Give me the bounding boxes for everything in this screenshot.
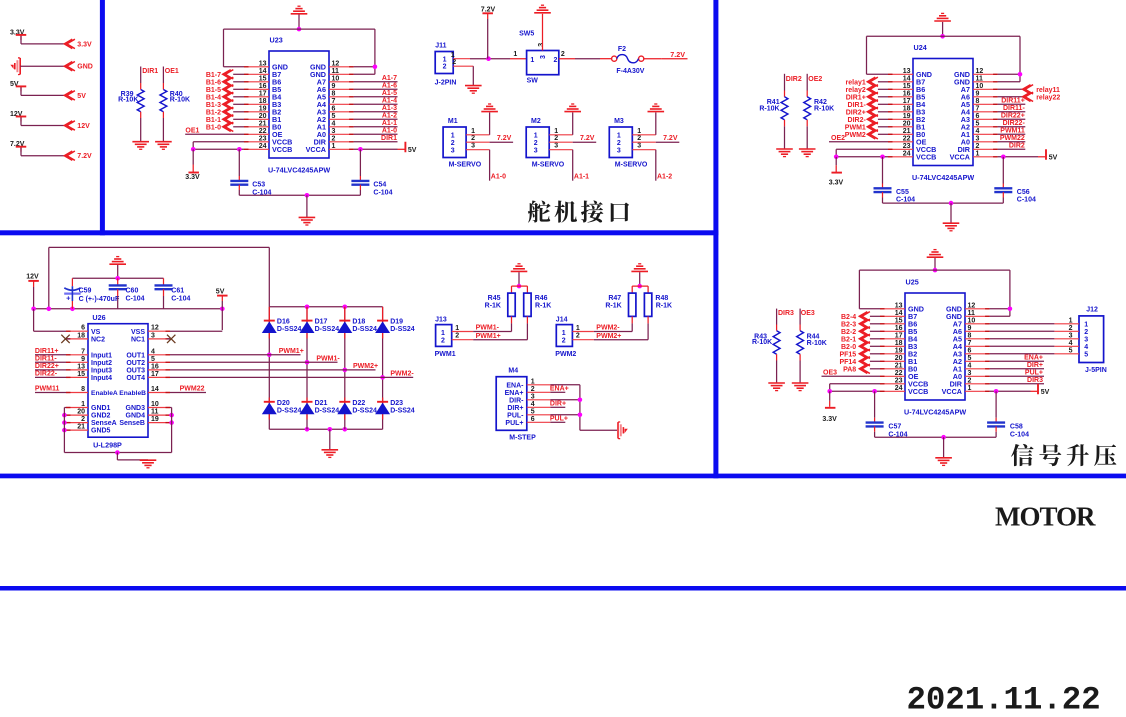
svg-text:15: 15 (895, 317, 903, 324)
svg-text:24: 24 (895, 385, 903, 392)
svg-text:8: 8 (976, 98, 980, 105)
svg-text:M-STEP: M-STEP (509, 435, 536, 442)
svg-text:3: 3 (976, 135, 980, 142)
svg-text:1: 1 (617, 132, 621, 139)
svg-text:5: 5 (1069, 347, 1073, 354)
svg-text:1: 1 (637, 128, 641, 135)
svg-text:16: 16 (903, 90, 911, 97)
svg-text:R46: R46 (535, 295, 548, 302)
svg-text:Input3: Input3 (91, 368, 112, 375)
svg-text:B2-2: B2-2 (841, 329, 856, 336)
svg-text:9: 9 (968, 325, 972, 332)
svg-text:1: 1 (443, 56, 447, 63)
svg-text:OE1: OE1 (185, 128, 199, 135)
svg-text:D-SS24: D-SS24 (315, 408, 340, 415)
svg-text:VS: VS (91, 329, 101, 336)
svg-text:C54: C54 (373, 182, 386, 189)
svg-text:C61: C61 (171, 288, 184, 295)
svg-text:22: 22 (259, 128, 267, 135)
svg-text:J-2PIN: J-2PIN (435, 79, 457, 86)
svg-text:DIR1: DIR1 (381, 135, 397, 142)
svg-text:DIR1+: DIR1+ (846, 94, 866, 101)
svg-text:11: 11 (332, 68, 340, 75)
svg-text:2: 2 (1069, 325, 1073, 332)
svg-text:6: 6 (968, 347, 972, 354)
svg-text:2: 2 (81, 416, 85, 423)
svg-text:PF14: PF14 (839, 359, 856, 366)
svg-text:5: 5 (531, 408, 535, 415)
svg-text:B1-4: B1-4 (206, 94, 221, 101)
svg-text:1: 1 (332, 143, 336, 150)
svg-text:12: 12 (968, 302, 976, 309)
svg-text:1: 1 (530, 57, 534, 64)
svg-text:DIR2+: DIR2+ (846, 109, 866, 116)
svg-text:OUT2: OUT2 (126, 360, 145, 367)
svg-text:DIR1-: DIR1- (848, 102, 867, 109)
svg-text:GND: GND (77, 64, 93, 71)
svg-text:D22: D22 (352, 400, 365, 407)
svg-text:16: 16 (895, 325, 903, 332)
svg-text:7: 7 (968, 340, 972, 347)
svg-text:R-1K: R-1K (656, 302, 672, 309)
svg-text:U-74LVC4245APW: U-74LVC4245APW (268, 166, 330, 175)
svg-text:PWM11: PWM11 (35, 386, 60, 393)
svg-text:F-4A30V: F-4A30V (616, 68, 644, 75)
svg-text:4: 4 (976, 128, 980, 135)
svg-text:3.3V: 3.3V (822, 416, 837, 423)
svg-text:R47: R47 (608, 295, 621, 302)
svg-text:4: 4 (968, 362, 972, 369)
svg-text:2: 2 (455, 333, 459, 340)
svg-text:1: 1 (455, 325, 459, 332)
svg-text:2: 2 (471, 135, 475, 142)
svg-text:DIR11+: DIR11+ (35, 348, 59, 355)
svg-text:D-SS24: D-SS24 (277, 326, 302, 333)
svg-text:17: 17 (259, 90, 267, 97)
svg-text:23: 23 (895, 377, 903, 384)
svg-text:GND4: GND4 (126, 413, 146, 420)
svg-text:PWM1+: PWM1+ (279, 348, 304, 355)
svg-text:11: 11 (976, 75, 984, 82)
svg-text:17: 17 (151, 371, 159, 378)
svg-text:OE1: OE1 (165, 68, 179, 75)
svg-text:OUT1: OUT1 (126, 352, 145, 359)
svg-text:11: 11 (968, 310, 976, 317)
svg-text:B2-0: B2-0 (841, 344, 856, 351)
svg-text:C58: C58 (1010, 424, 1023, 431)
svg-text:B1-6: B1-6 (206, 79, 221, 86)
svg-text:SenseB: SenseB (119, 420, 145, 427)
svg-text:5: 5 (151, 356, 155, 363)
svg-text:3: 3 (1084, 336, 1088, 343)
svg-text:A1-3: A1-3 (382, 105, 397, 112)
svg-text:VCCB: VCCB (908, 387, 928, 396)
svg-text:8: 8 (968, 332, 972, 339)
svg-text:DIR11-: DIR11- (1003, 105, 1025, 112)
svg-text:DIR3: DIR3 (778, 310, 794, 317)
svg-text:1: 1 (576, 325, 580, 332)
svg-text:PWM1+: PWM1+ (476, 333, 501, 340)
svg-text:DIR22-: DIR22- (1003, 120, 1026, 127)
svg-text:13: 13 (895, 302, 903, 309)
svg-text:C-104: C-104 (126, 295, 145, 302)
svg-text:C-104: C-104 (1010, 432, 1029, 439)
svg-text:12: 12 (976, 68, 984, 75)
svg-text:3: 3 (637, 143, 641, 150)
svg-text:C56: C56 (1017, 189, 1030, 196)
svg-text:PA8: PA8 (843, 366, 856, 373)
svg-text:M3: M3 (614, 118, 624, 125)
svg-text:15: 15 (259, 75, 267, 82)
svg-text:D20: D20 (277, 400, 290, 407)
svg-text:D16: D16 (277, 318, 290, 325)
svg-text:1: 1 (534, 132, 538, 139)
svg-text:PWM2-: PWM2- (596, 325, 620, 332)
svg-text:J13: J13 (435, 316, 447, 323)
svg-text:3: 3 (1069, 332, 1073, 339)
svg-text:C-104: C-104 (373, 189, 392, 196)
svg-text:VCCA: VCCA (942, 387, 962, 396)
svg-text:C (+-)-470uF: C (+-)-470uF (79, 296, 120, 303)
svg-text:D-SS24: D-SS24 (352, 326, 377, 333)
svg-text:10: 10 (968, 317, 976, 324)
svg-text:PWM2: PWM2 (845, 132, 866, 139)
svg-text:R45: R45 (488, 295, 501, 302)
svg-text:7.2V: 7.2V (670, 50, 685, 59)
svg-text:23: 23 (903, 143, 911, 150)
svg-text:DIR3: DIR3 (1027, 377, 1043, 384)
svg-text:DIR1: DIR1 (142, 68, 158, 75)
svg-text:2: 2 (976, 143, 980, 150)
svg-text:D-SS24: D-SS24 (390, 408, 415, 415)
svg-text:18: 18 (903, 105, 911, 112)
svg-text:DIR11-: DIR11- (35, 356, 57, 363)
svg-text:6: 6 (976, 113, 980, 120)
svg-text:OUT3: OUT3 (126, 368, 145, 375)
svg-text:10: 10 (151, 401, 159, 408)
svg-text:1: 1 (1084, 321, 1088, 328)
svg-text:R-10K: R-10K (118, 97, 138, 104)
svg-text:DIR-: DIR- (509, 397, 524, 404)
svg-text:5V: 5V (1049, 154, 1058, 161)
svg-text:F2: F2 (618, 46, 626, 53)
svg-text:C55: C55 (896, 189, 909, 196)
svg-text:D21: D21 (315, 400, 328, 407)
svg-text:16: 16 (259, 83, 267, 90)
svg-text:5: 5 (976, 120, 980, 127)
svg-text:DIR22+: DIR22+ (35, 363, 59, 370)
svg-text:M4: M4 (508, 367, 518, 374)
svg-text:DIR2: DIR2 (1009, 143, 1025, 150)
svg-text:R-10K: R-10K (814, 105, 834, 112)
svg-text:2: 2 (1084, 329, 1088, 336)
svg-text:3.3V: 3.3V (829, 180, 844, 187)
svg-text:D-SS24: D-SS24 (352, 408, 377, 415)
svg-text:PWM1-: PWM1- (476, 325, 500, 332)
svg-text:A1-1: A1-1 (382, 120, 397, 127)
svg-text:Input2: Input2 (91, 360, 112, 367)
svg-text:PWM2+: PWM2+ (596, 333, 621, 340)
svg-text:5: 5 (1084, 351, 1088, 358)
svg-text:D23: D23 (390, 400, 403, 407)
svg-text:8: 8 (81, 386, 85, 393)
svg-text:A1-5: A1-5 (382, 90, 397, 97)
svg-text:12: 12 (151, 325, 159, 332)
svg-text:GND2: GND2 (91, 413, 111, 420)
svg-text:9: 9 (976, 90, 980, 97)
svg-text:SenseA: SenseA (91, 420, 117, 427)
svg-text:18: 18 (895, 340, 903, 347)
svg-text:15: 15 (903, 83, 911, 90)
svg-text:+: + (66, 293, 71, 302)
svg-text:12: 12 (332, 60, 340, 67)
svg-text:1: 1 (81, 401, 85, 408)
svg-text:2: 2 (554, 135, 558, 142)
svg-text:22: 22 (903, 135, 911, 142)
svg-text:10: 10 (332, 75, 340, 82)
svg-text:21: 21 (903, 128, 911, 135)
svg-text:B2-3: B2-3 (841, 321, 856, 328)
svg-text:2021.11.22: 2021.11.22 (907, 682, 1101, 717)
svg-text:DIR22+: DIR22+ (1001, 113, 1025, 120)
svg-text:A1-2: A1-2 (657, 174, 672, 181)
svg-text:1: 1 (513, 51, 517, 58)
svg-text:PWM2: PWM2 (555, 351, 576, 358)
svg-text:12V: 12V (77, 123, 90, 130)
svg-text:PWM1-: PWM1- (316, 356, 340, 363)
svg-text:PWM22: PWM22 (1000, 135, 1025, 142)
svg-text:VCCB: VCCB (272, 145, 292, 154)
svg-text:20: 20 (259, 113, 267, 120)
svg-text:R-10K: R-10K (752, 339, 772, 346)
svg-text:R-1K: R-1K (605, 302, 621, 309)
svg-text:U25: U25 (906, 278, 919, 287)
svg-text:5V: 5V (216, 289, 225, 296)
svg-text:24: 24 (259, 143, 267, 150)
svg-text:2: 2 (561, 51, 565, 58)
svg-text:U-L298P: U-L298P (93, 441, 122, 450)
svg-text:13: 13 (77, 363, 85, 370)
svg-text:EnableB: EnableB (119, 390, 146, 397)
svg-text:ENA+: ENA+ (1024, 355, 1043, 362)
svg-text:GND1: GND1 (91, 405, 111, 412)
svg-text:C59: C59 (79, 288, 92, 295)
svg-text:PWM1: PWM1 (435, 351, 456, 358)
svg-text:5V: 5V (408, 147, 417, 154)
svg-text:5V: 5V (1041, 389, 1050, 396)
svg-text:U24: U24 (914, 43, 927, 52)
svg-text:14: 14 (151, 386, 159, 393)
svg-text:R-10K: R-10K (170, 97, 190, 104)
svg-text:PUL+: PUL+ (550, 416, 568, 423)
svg-text:OE2: OE2 (808, 76, 822, 83)
svg-text:1: 1 (451, 132, 455, 139)
svg-text:R48: R48 (655, 295, 668, 302)
svg-text:R-10K: R-10K (759, 105, 779, 112)
svg-text:1: 1 (562, 330, 566, 337)
svg-text:4: 4 (1084, 344, 1088, 351)
svg-text:B1-2: B1-2 (206, 109, 221, 116)
svg-text:1: 1 (968, 385, 972, 392)
svg-text:13: 13 (259, 60, 267, 67)
svg-text:C53: C53 (252, 182, 265, 189)
svg-text:1: 1 (531, 378, 535, 385)
svg-text:PF15: PF15 (839, 351, 856, 358)
svg-text:2: 2 (576, 333, 580, 340)
svg-text:GND5: GND5 (91, 428, 111, 435)
svg-text:7.2V: 7.2V (497, 135, 512, 142)
svg-text:2: 2 (617, 140, 621, 147)
svg-text:23: 23 (259, 135, 267, 142)
svg-text:U26: U26 (92, 313, 105, 322)
svg-text:ENA-: ENA- (506, 382, 524, 389)
svg-text:17: 17 (903, 98, 911, 105)
svg-text:3: 3 (968, 370, 972, 377)
svg-text:B1-1: B1-1 (206, 117, 221, 124)
svg-text:M-SERVO: M-SERVO (615, 161, 648, 168)
svg-text:3: 3 (451, 147, 455, 154)
svg-text:19: 19 (895, 347, 903, 354)
svg-text:D-SS24: D-SS24 (315, 326, 340, 333)
svg-text:ENA+: ENA+ (550, 386, 569, 393)
svg-text:2: 2 (443, 64, 447, 71)
svg-text:18: 18 (259, 98, 267, 105)
svg-text:J12: J12 (1086, 307, 1098, 314)
svg-text:3: 3 (554, 143, 558, 150)
svg-text:R-1K: R-1K (535, 302, 551, 309)
svg-text:21: 21 (259, 120, 267, 127)
svg-text:PUL-: PUL- (507, 412, 524, 419)
svg-text:8: 8 (332, 90, 336, 97)
svg-text:6: 6 (81, 325, 85, 332)
svg-text:C57: C57 (888, 424, 901, 431)
svg-text:2: 2 (534, 140, 538, 147)
svg-text:14: 14 (895, 310, 903, 317)
svg-text:3: 3 (332, 128, 336, 135)
svg-text:B1-0: B1-0 (206, 124, 221, 131)
svg-text:2: 2 (531, 386, 535, 393)
svg-text:3: 3 (471, 143, 475, 150)
svg-text:B1-3: B1-3 (206, 102, 221, 109)
svg-text:PWM22: PWM22 (180, 386, 205, 393)
svg-text:B2-4: B2-4 (841, 314, 856, 321)
svg-text:M-SERVO: M-SERVO (532, 161, 565, 168)
svg-text:ENA+: ENA+ (505, 390, 524, 397)
svg-text:D17: D17 (315, 318, 328, 325)
svg-text:3: 3 (534, 147, 538, 154)
svg-text:1: 1 (441, 330, 445, 337)
svg-text:relay2: relay2 (846, 87, 866, 94)
svg-text:7.2V: 7.2V (580, 135, 595, 142)
svg-text:relay22: relay22 (1036, 94, 1060, 101)
svg-text:A1-1: A1-1 (574, 174, 589, 181)
svg-text:PUL+: PUL+ (505, 420, 523, 427)
svg-text:21: 21 (77, 424, 85, 431)
svg-text:3: 3 (538, 43, 545, 47)
svg-text:7.2V: 7.2V (663, 135, 678, 142)
svg-text:2: 2 (452, 59, 456, 66)
svg-text:PWM1: PWM1 (845, 124, 866, 131)
svg-text:A1-2: A1-2 (382, 113, 397, 120)
svg-text:22: 22 (895, 370, 903, 377)
svg-text:DIR2-: DIR2- (848, 117, 867, 124)
svg-text:2: 2 (554, 57, 558, 64)
svg-text:3: 3 (540, 55, 547, 59)
svg-text:15: 15 (77, 371, 85, 378)
svg-text:PWM2+: PWM2+ (353, 363, 378, 370)
svg-text:PWM11: PWM11 (1000, 128, 1025, 135)
svg-text:14: 14 (259, 68, 267, 75)
svg-text:6: 6 (531, 416, 535, 423)
svg-text:4: 4 (332, 120, 336, 127)
svg-text:3.3V: 3.3V (77, 41, 92, 48)
svg-text:7.2V: 7.2V (481, 6, 496, 13)
svg-text:D18: D18 (352, 318, 365, 325)
svg-text:A1-7: A1-7 (382, 75, 397, 82)
svg-text:10: 10 (976, 83, 984, 90)
svg-text:2: 2 (332, 135, 336, 142)
svg-text:17: 17 (895, 332, 903, 339)
svg-text:M2: M2 (531, 118, 541, 125)
svg-text:5: 5 (332, 113, 336, 120)
svg-text:3: 3 (617, 147, 621, 154)
svg-text:NC2: NC2 (91, 337, 105, 344)
svg-text:OE3: OE3 (823, 370, 837, 377)
svg-text:B1-5: B1-5 (206, 87, 221, 94)
svg-text:DIR+: DIR+ (1027, 362, 1043, 369)
svg-text:16: 16 (151, 363, 159, 370)
svg-text:C60: C60 (126, 288, 139, 295)
svg-text:4: 4 (151, 348, 155, 355)
svg-text:A1-4: A1-4 (382, 98, 397, 105)
svg-text:M-SERVO: M-SERVO (449, 161, 482, 168)
svg-text:OE2: OE2 (831, 135, 845, 142)
svg-text:2: 2 (441, 337, 445, 344)
svg-text:5: 5 (968, 355, 972, 362)
svg-text:21: 21 (895, 362, 903, 369)
svg-text:SW5: SW5 (519, 31, 534, 38)
svg-text:relay1: relay1 (846, 79, 866, 86)
svg-text:6: 6 (332, 105, 336, 112)
svg-text:R-10K: R-10K (807, 340, 827, 347)
svg-text:4: 4 (1069, 340, 1073, 347)
svg-text:7.2V: 7.2V (77, 153, 92, 160)
svg-text:DIR+: DIR+ (550, 401, 566, 408)
svg-text:7: 7 (81, 348, 85, 355)
svg-text:EnableA: EnableA (91, 390, 118, 397)
svg-text:VCCA: VCCA (306, 145, 326, 154)
svg-text:B1-7: B1-7 (206, 72, 221, 79)
svg-text:1: 1 (1069, 317, 1073, 324)
svg-text:12V: 12V (26, 274, 39, 281)
svg-text:J11: J11 (435, 43, 446, 50)
svg-text:M1: M1 (448, 118, 458, 125)
svg-text:J-5PIN: J-5PIN (1085, 367, 1107, 374)
svg-text:PWM2-: PWM2- (390, 371, 414, 378)
svg-text:VSS: VSS (131, 329, 145, 336)
svg-text:A1-0: A1-0 (491, 174, 506, 181)
svg-text:Input1: Input1 (91, 352, 112, 359)
svg-text:3.3V: 3.3V (185, 174, 200, 181)
svg-text:NC1: NC1 (131, 337, 145, 344)
svg-text:U-74LVC4245APW: U-74LVC4245APW (912, 173, 974, 182)
svg-text:1: 1 (554, 128, 558, 135)
svg-text:R-1K: R-1K (485, 302, 501, 309)
svg-text:relay11: relay11 (1036, 87, 1060, 94)
svg-text:2: 2 (968, 377, 972, 384)
svg-text:Input4: Input4 (91, 375, 112, 382)
svg-text:DIR11+: DIR11+ (1001, 98, 1025, 105)
